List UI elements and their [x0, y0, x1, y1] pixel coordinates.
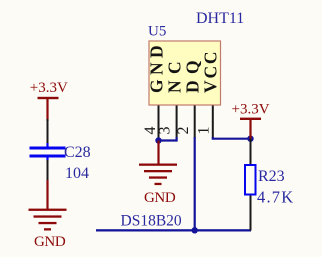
wire (pin1 to +3.3V node): [213, 137, 251, 139]
wire (bottom horizontal): [96, 229, 251, 231]
svg-text:104: 104: [65, 165, 89, 182]
wire: [47, 160, 49, 181]
wire DS18B20 net (pin2 down): [194, 137, 196, 230]
pin 1: [212, 106, 214, 139]
svg-text:R23: R23: [258, 168, 285, 185]
svg-text:GND: GND: [146, 41, 166, 93]
svg-text:DQ: DQ: [183, 54, 203, 93]
svg-text:VCC: VCC: [201, 50, 221, 93]
pin 4: [158, 106, 160, 139]
wire: [47, 119, 49, 144]
svg-text:3: 3: [156, 127, 173, 135]
ground GND (middle): [139, 141, 177, 207]
power +3.3V (right): [232, 102, 270, 140]
svg-text:2: 2: [175, 127, 192, 135]
junction: [155, 137, 161, 143]
svg-text:NC: NC: [165, 55, 185, 93]
wire (resistor bottom lead): [250, 196, 252, 231]
svg-text:GND: GND: [34, 234, 66, 250]
pin 3: [176, 106, 178, 139]
wire (node to resistor): [250, 139, 252, 165]
svg-text:+3.3V: +3.3V: [232, 102, 270, 118]
svg-text:GND: GND: [144, 190, 176, 206]
ground GND (left): [29, 180, 67, 250]
svg-text:+3.3V: +3.3V: [30, 80, 68, 96]
svg-text:DS18B20: DS18B20: [121, 213, 182, 230]
junction: [247, 136, 253, 142]
capacitor C28: [30, 143, 91, 161]
svg-text:DHT11: DHT11: [196, 10, 244, 27]
junction: [192, 227, 198, 233]
power +3.3V (left): [30, 80, 68, 121]
svg-text:U5: U5: [148, 24, 166, 40]
svg-text:C28: C28: [64, 144, 91, 161]
svg-text:1: 1: [196, 127, 213, 135]
svg-text:4.7K: 4.7K: [257, 188, 294, 207]
pin 2: [194, 106, 196, 139]
resistor R23: [245, 165, 285, 195]
IC U5 DHT11 body: [149, 41, 221, 105]
wire (pin3 to pin4 junction): [159, 137, 177, 141]
